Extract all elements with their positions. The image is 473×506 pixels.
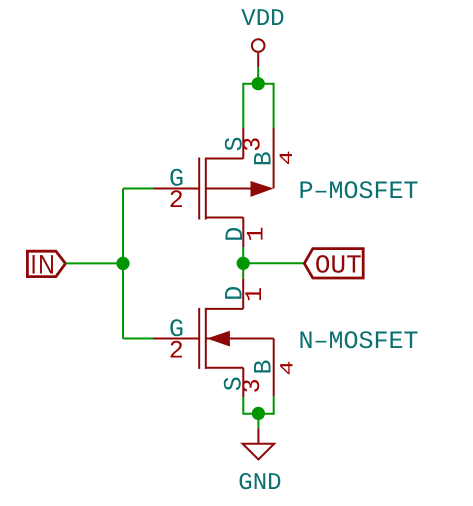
wire IN node to N-MOSFET gate <box>123 338 154 340</box>
pin D of N-MOSFET <box>242 279 244 309</box>
gate bar of P-MOSFET <box>198 158 200 220</box>
svg-text:OUT: OUT <box>315 250 362 280</box>
pin S of N-MOSFET <box>242 368 244 397</box>
svg-text:B: B <box>250 151 279 166</box>
drain stub of P-MOSFET <box>206 217 244 219</box>
channel bar of P-MOSFET <box>205 158 207 220</box>
pin B of N-MOSFET <box>273 339 275 397</box>
pin G of P-MOSFET <box>153 188 199 190</box>
bulk arrow of P-MOSFET <box>251 181 274 197</box>
wire VDD node to P-MOSFET source <box>243 84 258 128</box>
svg-text:1: 1 <box>241 287 269 302</box>
wire N-MOSFET bulk to GND node <box>258 396 273 413</box>
svg-text:B: B <box>250 359 279 374</box>
pin D of P-MOSFET <box>242 218 244 248</box>
svg-text:VDD: VDD <box>241 6 284 33</box>
bulk stub of P-MOSFET <box>206 188 252 190</box>
svg-text:GND: GND <box>238 470 281 497</box>
ground <box>243 428 275 459</box>
svg-text:IN: IN <box>30 250 56 280</box>
bulk stub of N-MOSFET <box>206 338 274 340</box>
bulk arrow of N-MOSFET <box>207 331 230 347</box>
port OUT <box>304 249 363 281</box>
wire IN port to IN node <box>66 262 124 264</box>
junction IN node <box>116 257 129 270</box>
source stub of P-MOSFET <box>206 158 244 160</box>
port IN <box>27 250 65 280</box>
svg-text:1: 1 <box>242 226 270 241</box>
svg-text:N–MOSFET: N–MOSFET <box>299 327 419 356</box>
wire IN node to P-MOSFET gate <box>123 188 154 190</box>
svg-text:P–MOSFET: P–MOSFET <box>299 177 419 206</box>
wire IN node vertical <box>122 189 124 339</box>
transistor P-MOSFET <box>153 128 298 247</box>
pin B of P-MOSFET <box>273 128 275 189</box>
junction VDD node <box>252 77 265 90</box>
svg-text:3: 3 <box>238 378 267 393</box>
drain stub of N-MOSFET <box>206 308 243 310</box>
power symbol VDD <box>252 39 265 67</box>
junction GND node <box>252 407 265 420</box>
wire OUT node to OUT port <box>243 262 304 264</box>
wire VDD symbol to junction <box>257 67 259 84</box>
svg-text:3: 3 <box>239 137 268 152</box>
transistor N-MOSFET <box>153 279 299 397</box>
channel bar of N-MOSFET <box>205 308 207 369</box>
wire OUT node to N-MOSFET drain <box>242 263 244 279</box>
gate bar of N-MOSFET <box>198 308 200 369</box>
junction OUT node <box>237 257 250 270</box>
wire GND node to GND symbol <box>257 414 259 429</box>
source stub of N-MOSFET <box>206 367 244 369</box>
wire VDD node to P-MOSFET bulk <box>258 84 273 128</box>
svg-text:2: 2 <box>169 186 184 215</box>
svg-text:4: 4 <box>276 150 298 165</box>
wire N-MOSFET source to GND node <box>243 397 258 414</box>
wire P-MOSFET drain to OUT node <box>242 247 244 263</box>
svg-text:2: 2 <box>169 337 184 366</box>
pin S of P-MOSFET <box>242 128 244 159</box>
pin G of N-MOSFET <box>153 338 199 340</box>
svg-text:4: 4 <box>277 360 299 375</box>
